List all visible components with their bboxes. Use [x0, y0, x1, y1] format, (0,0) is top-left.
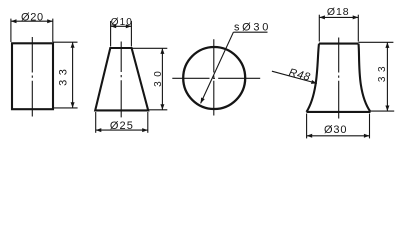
- dimension ø18 arrow left: [319, 15, 325, 19]
- svg-text:Ø20: Ø20: [21, 12, 44, 24]
- dimension 33 line: [72, 42, 74, 108]
- dimension sø30 leader shelf: [233, 31, 267, 33]
- dimension ø25 arrow left: [96, 128, 102, 132]
- dimension 33 arrow top: [385, 42, 389, 48]
- concave solid bottom edge: [307, 111, 371, 113]
- dimension ø18 extension line left: [318, 15, 320, 42]
- dimension sø30 leader arrow: [201, 97, 205, 103]
- dimension 33 bottom extension line: [53, 107, 78, 109]
- dimension ø20 arrow left: [11, 19, 17, 23]
- dimension ø18 arrow right: [353, 15, 359, 19]
- dimension ø30 extension line left: [306, 114, 308, 139]
- dimension ø25 extension line left: [95, 112, 97, 133]
- sphere outline circle: [183, 47, 245, 109]
- dimension ø10 line: [111, 25, 132, 27]
- dimension 30 bottom extension line: [148, 109, 167, 111]
- dimension R48 leader arrow: [311, 80, 317, 84]
- concave solid vertical center line: [338, 38, 340, 119]
- dimension ø18 line: [319, 16, 358, 18]
- cone vertical center line: [120, 42, 122, 118]
- cone outline: [95, 48, 148, 110]
- dimension 33 bottom extension line: [371, 110, 394, 112]
- svg-text:Ø10: Ø10: [111, 17, 133, 28]
- dimension ø30 line: [307, 135, 370, 137]
- dimension ø30 arrow left: [307, 134, 313, 138]
- dimension sø30 leader line: [201, 32, 234, 103]
- dimension 33 line: [386, 42, 388, 111]
- concave solid top edge: [319, 43, 359, 45]
- concave solid left curved side: [307, 44, 320, 112]
- svg-text:Ø30: Ø30: [324, 124, 348, 136]
- dimension 30 line: [161, 48, 163, 110]
- dimension ø10 extension line right: [130, 21, 132, 47]
- sphere vertical center line: [213, 39, 215, 115]
- svg-text:33: 33: [57, 65, 69, 86]
- svg-text:30: 30: [153, 67, 164, 87]
- cylinder outline: [12, 43, 53, 109]
- dimension ø30 arrow right: [364, 134, 370, 138]
- svg-text:Ø18: Ø18: [327, 6, 350, 18]
- dimension ø18 extension line right: [357, 15, 359, 42]
- dimension ø20 line: [11, 20, 53, 22]
- dimension 30 top extension line: [132, 47, 168, 49]
- dimension ø10 extension line left: [110, 21, 112, 47]
- cylinder vertical center line: [31, 37, 33, 117]
- dimension ø30 extension line right: [369, 114, 371, 139]
- dimension 33 arrow bottom: [385, 106, 389, 112]
- dimension ø10 arrow left: [111, 24, 117, 28]
- dimension ø25 line: [96, 129, 148, 131]
- dimension 33 top extension line: [359, 41, 394, 43]
- dimension ø25 arrow right: [142, 128, 148, 132]
- sphere horizontal center line: [172, 77, 260, 79]
- dimension 33 top extension line: [53, 41, 78, 43]
- dimension ø10 arrow right: [126, 24, 132, 28]
- dimension 33 arrow top: [71, 42, 75, 48]
- concave solid right curved side: [359, 44, 371, 112]
- dimension R48 leader line: [272, 71, 317, 83]
- dimension ø20 arrow right: [47, 19, 53, 23]
- dimension 30 arrow top: [160, 48, 164, 54]
- dimension ø25 extension line right: [147, 112, 149, 133]
- svg-text:Ø25: Ø25: [110, 120, 134, 132]
- dimension ø20 extension line right: [52, 19, 54, 42]
- dimension 30 arrow bottom: [160, 104, 164, 110]
- dimension ø20 extension line left: [10, 19, 12, 42]
- svg-text:sØ30: sØ30: [234, 21, 271, 33]
- dimension 33 arrow bottom: [71, 102, 75, 108]
- svg-text:33: 33: [377, 62, 388, 82]
